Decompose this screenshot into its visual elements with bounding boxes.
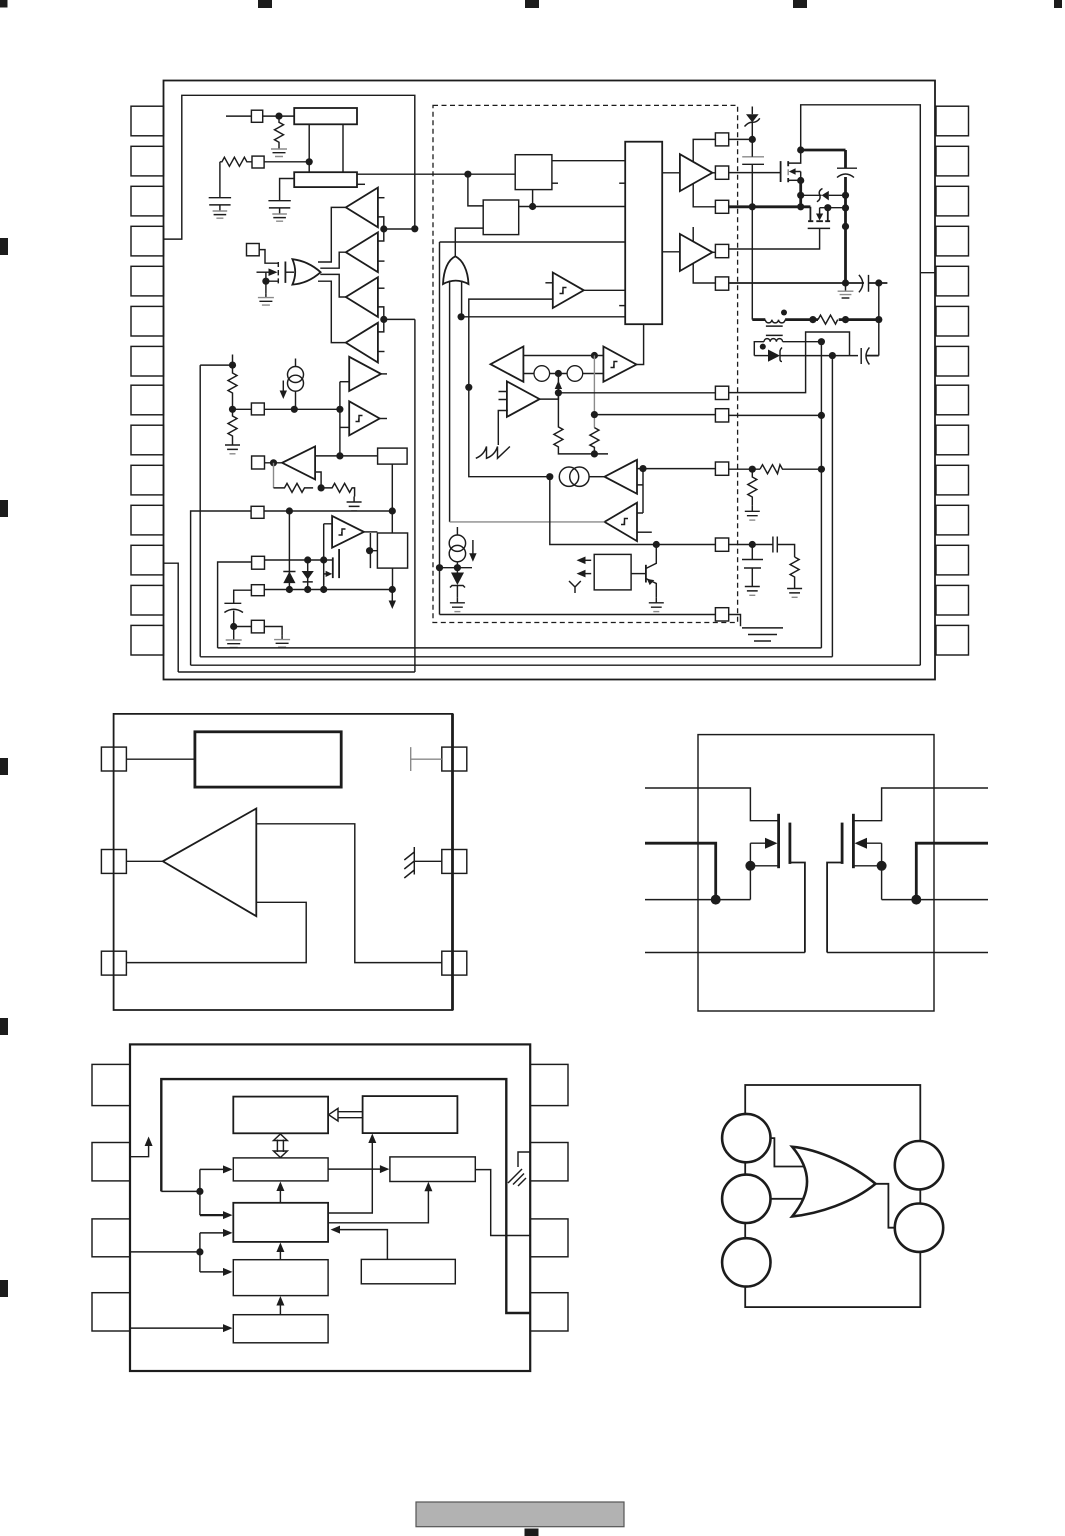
node Q1 source	[262, 278, 269, 285]
pin circle L2	[722, 1175, 770, 1223]
pad square Q2g	[715, 166, 728, 179]
Tr7 input stub	[324, 524, 332, 560]
G2 output to S2	[455, 228, 483, 256]
U1 left pin 10	[131, 465, 164, 495]
U1 right pin 20	[936, 425, 969, 455]
block H (buffer)	[233, 1315, 328, 1343]
T5 out to Q2g	[712, 172, 715, 174]
arrowhead H	[223, 1324, 233, 1332]
wire into P1	[226, 115, 251, 117]
pad square Q8g	[715, 462, 728, 475]
node A2 out	[555, 389, 562, 396]
node comparator input	[336, 406, 343, 413]
U2 pin 4	[442, 951, 467, 975]
ST1 input stub	[545, 282, 552, 284]
wire P6 to latch	[264, 510, 392, 512]
wire E to B riser	[328, 1140, 372, 1213]
Q3 base wire	[631, 573, 646, 575]
pin7 ground hook	[518, 1152, 530, 1167]
pin circle R1	[895, 1141, 943, 1189]
sink arrowhead	[389, 601, 396, 610]
A2 input ticks	[499, 392, 507, 400]
U4 right pin 8	[530, 1064, 568, 1105]
M1 body arrow line	[794, 172, 801, 181]
registration mark bottom	[525, 1529, 539, 1536]
stub T1	[378, 197, 385, 199]
CS1 output wire	[295, 391, 297, 409]
U2 pin 2	[101, 850, 126, 874]
Q2b arrowhead	[326, 571, 333, 577]
IC U2 outline	[114, 714, 453, 1010]
ramp resistor drop 1	[554, 374, 608, 454]
timing capacitor C4	[224, 602, 241, 604]
XOR out mid-lower to T3	[320, 274, 346, 297]
registration mark left 1	[0, 238, 8, 255]
Q1 body arrow	[257, 271, 272, 273]
wire divider to left drop C	[200, 364, 232, 366]
U1 right pin 25	[936, 226, 969, 256]
L2 right wire	[783, 341, 822, 343]
wire L2 to gate	[771, 1198, 809, 1200]
row wire right	[839, 318, 879, 321]
wire P1 to osc block	[263, 115, 295, 117]
Q2b gate top lead	[324, 559, 333, 561]
node pin3	[196, 1248, 203, 1255]
zener Z1	[746, 114, 759, 122]
lead left 2 (thick)	[645, 843, 716, 899]
node: osc input junction	[275, 113, 282, 120]
M2 gate line	[808, 227, 830, 229]
U1 right pin 17	[936, 545, 969, 575]
feedback resistor R6	[321, 483, 355, 496]
U1 right pin 21	[936, 385, 969, 415]
node supply	[196, 1188, 203, 1195]
link M2 to rail	[828, 207, 846, 209]
capacitor C5 curved	[861, 347, 869, 364]
Tr5 output stub	[381, 373, 387, 375]
node L2 net	[818, 338, 825, 345]
T6 top tick	[692, 227, 694, 242]
C5 right lead	[866, 355, 879, 357]
node row B 3	[320, 586, 327, 593]
CS1 down arrow	[282, 381, 284, 394]
U1 left pin 14	[131, 625, 164, 655]
QA body arrow line	[750, 842, 768, 844]
coil L1	[765, 320, 785, 323]
MOSFET Q2b gate bar	[332, 557, 334, 578]
M2 body arrow	[820, 208, 828, 215]
pad square P4	[251, 403, 264, 415]
QB gate bar	[841, 823, 844, 864]
resistor R8	[760, 465, 822, 474]
ground (Q10)	[742, 628, 783, 641]
resistor R3	[228, 365, 237, 409]
wire A10 tap to pin3	[126, 902, 306, 962]
L1 polarity dot	[781, 310, 787, 316]
resistor R7	[818, 315, 838, 324]
node divider mid	[229, 406, 236, 413]
sync block S2	[483, 200, 519, 235]
node Q3 wire b	[797, 203, 804, 210]
ground (R1)	[271, 145, 287, 157]
S2 right wire	[519, 206, 626, 208]
node on crystal bar	[306, 158, 313, 165]
XOR out upper to T1	[318, 207, 346, 262]
XOR out mid-upper to T2	[320, 252, 346, 268]
pin3 riser	[199, 1233, 201, 1272]
node M2 right lead	[824, 204, 831, 211]
M2 arrowhead	[816, 214, 823, 221]
FET QB source riser	[881, 843, 883, 899]
U4 left pin 4	[92, 1293, 130, 1331]
lead right 3	[882, 899, 988, 901]
buffer Tr5	[349, 357, 381, 391]
A3 feedback drop	[273, 463, 275, 488]
block C (control)	[233, 1158, 328, 1181]
arrow E to C	[279, 1188, 281, 1203]
M1 gate bar	[780, 161, 782, 182]
wire D to pin6	[475, 1170, 530, 1236]
Q3 emitter	[646, 579, 656, 598]
node sense/R row	[875, 316, 882, 323]
schmitt buffer Tr6	[349, 401, 380, 435]
node drop1/Q8	[818, 466, 825, 473]
QB source bar link	[853, 865, 881, 867]
block A (RAM)	[233, 1097, 328, 1134]
node rail bottom	[842, 279, 849, 286]
arrow into block C	[200, 1168, 226, 1170]
wire ramp node to Qb pad	[550, 477, 716, 545]
pad square P5	[252, 456, 265, 469]
schmitt ST1	[553, 273, 584, 309]
node osc line / S1	[464, 171, 471, 178]
node CS3/zener	[454, 564, 461, 571]
arrowhead 1	[577, 557, 586, 565]
node right source	[911, 895, 921, 905]
lead left 3	[645, 899, 750, 901]
wire circles to comp3	[589, 476, 604, 478]
PWM left stub 2	[619, 305, 625, 307]
U2 pin 3	[101, 951, 126, 975]
U2 pin 6	[442, 747, 467, 771]
node row B 1	[286, 586, 293, 593]
bottom bus 1	[218, 647, 822, 649]
U1 right pin 18	[936, 505, 969, 535]
zener Z2 (left pointing)	[822, 191, 829, 201]
ramp resistor drop 2	[593, 356, 595, 428]
C2 curved plate	[837, 174, 854, 178]
T6 out to Q4g	[712, 251, 715, 253]
node S1/S2 out	[529, 203, 536, 210]
pad square P3 (gate drive)	[247, 244, 260, 256]
registration mark top-left	[0, 0, 8, 8]
wire A3 to latch B2	[315, 455, 378, 457]
wire P9 to ground hook	[264, 627, 282, 636]
U2 pin 1	[101, 747, 126, 771]
wire Q7g to drop1	[729, 414, 822, 416]
driver buffer T2	[346, 232, 378, 272]
registration mark top 4	[793, 0, 807, 8]
QB body arrow line	[864, 842, 882, 844]
arrowhead C2	[276, 1182, 284, 1192]
thick source drop	[799, 181, 802, 207]
current source CS3	[449, 535, 465, 551]
left loop A (pin12)	[164, 563, 179, 672]
wire osc block output to S1	[357, 173, 515, 175]
M1 source lead	[788, 179, 801, 181]
FET QA source riser	[749, 843, 751, 899]
U1 left pin 11	[131, 505, 164, 535]
registration mark top 3	[525, 0, 539, 8]
ground (P9)	[274, 636, 290, 648]
ground (C7)	[745, 581, 760, 595]
Z2 bar + wire	[801, 189, 846, 202]
comparator C3 (left)	[605, 460, 638, 494]
C1 leads / long rail	[751, 139, 753, 319]
wire Q1 to ground	[265, 281, 267, 293]
wire Q1g to zener	[729, 138, 753, 140]
U2 regulator block	[195, 732, 341, 787]
PWM left stub 1	[619, 182, 625, 184]
ST1 out to PWM	[584, 289, 625, 291]
M1 channel mid (gray)	[787, 169, 789, 175]
wire divider to P4	[233, 408, 252, 410]
wire T3/T4 out to drop bus	[384, 318, 415, 320]
B2 to B3 drop	[391, 464, 393, 533]
MOSFET M1 channel	[787, 161, 789, 182]
lead right 1	[853, 788, 988, 821]
error amp A1 (left)	[491, 347, 524, 382]
IC U1 outline	[164, 81, 936, 680]
logic block B3	[377, 533, 407, 568]
U2 pin 5	[442, 850, 467, 874]
sawtooth waveform glyph	[476, 447, 510, 459]
Q1 arrowhead	[269, 268, 278, 276]
OR gate G10	[792, 1147, 875, 1217]
node row B 4	[389, 586, 396, 593]
wire P3 to gate	[259, 250, 278, 264]
mirror circle M2	[567, 366, 583, 382]
wire R2 to ground	[219, 162, 221, 191]
node T1/T2 out	[380, 225, 387, 232]
wire P7 right	[265, 559, 324, 561]
XOR out lower to T4	[318, 281, 346, 342]
MOSFET M2 (rotated)	[808, 207, 830, 221]
lead right 4	[827, 952, 988, 954]
pin3 wire	[130, 1251, 200, 1253]
link plate to rail	[845, 225, 847, 227]
arrowhead C	[223, 1165, 233, 1173]
link row A to row B	[323, 560, 325, 590]
A1 top wire to SC	[523, 355, 603, 357]
osc block lower-left stub to ground	[280, 179, 295, 194]
wire rail to Qc pad	[440, 614, 716, 616]
node top-rail bus	[411, 225, 418, 232]
wire P7 left loop D	[218, 562, 252, 648]
U1 left pin 3	[131, 186, 164, 216]
wire P2 to crystal node	[264, 161, 309, 163]
pin circle L1	[722, 1114, 770, 1162]
thick drain link	[801, 149, 846, 152]
U1 left pin 4	[131, 226, 164, 256]
registration mark top-right	[1054, 0, 1062, 8]
U4 left pin 1	[92, 1064, 130, 1105]
pad square P8	[251, 585, 264, 596]
arrowhead E2	[223, 1229, 233, 1237]
driver buffer T4	[346, 323, 378, 363]
latch block B2	[378, 448, 408, 464]
C3 net drop	[637, 469, 643, 513]
wire node to pad Q6	[558, 392, 715, 394]
ground (R6)	[347, 497, 362, 511]
pad square P6 (soft start)	[251, 506, 264, 518]
pad square P1 (osc in)	[251, 110, 262, 122]
pad square Q7g	[715, 409, 728, 422]
wire Q10g to ground	[729, 615, 741, 627]
wire C4 to P9	[234, 626, 252, 628]
wire A10 tap to pin4	[256, 824, 442, 963]
registration mark left 5	[0, 1280, 8, 1297]
wire Q3g thick	[729, 205, 811, 208]
B3 bottom lead	[392, 568, 394, 589]
node C3 right	[875, 279, 882, 286]
U1 left pin 5	[131, 266, 164, 296]
node left source	[711, 895, 721, 905]
wire node to S2	[468, 174, 483, 206]
opto interface block	[594, 554, 631, 590]
U1 left pin 8	[131, 385, 164, 415]
U1 right pin 24	[936, 266, 969, 296]
ground (R10)	[787, 583, 802, 597]
node G2 input 2	[458, 313, 465, 320]
inner rail drop	[439, 242, 441, 615]
QA gate lead	[790, 863, 805, 953]
U1 left pin 12	[131, 545, 164, 575]
MOSFET Q1 gate bar	[284, 262, 286, 283]
PWM logic block	[625, 142, 662, 325]
thick rail below C2	[844, 177, 847, 283]
A1 mirror row wire	[523, 373, 603, 375]
node Z2 left	[797, 192, 804, 199]
arrowhead E3	[276, 1243, 284, 1253]
arrowhead D2	[424, 1182, 432, 1192]
pad square Q10g	[715, 608, 728, 621]
wire to top-rail bus	[384, 228, 415, 230]
wire to Tr5	[340, 381, 349, 383]
registration mark left 3	[0, 758, 8, 775]
driver buffer T3	[346, 277, 378, 317]
node row b	[842, 316, 849, 323]
registration mark top 2	[258, 0, 272, 8]
QA channel bar	[777, 814, 780, 868]
SC schmitt glyph	[611, 362, 618, 368]
stub T3	[378, 287, 385, 289]
node T3/T4 out	[380, 316, 387, 323]
T6 lower rail to Q5g	[693, 264, 715, 283]
arrowhead G2	[276, 1296, 284, 1306]
chassis ground glyph	[508, 1169, 526, 1186]
current source CS1 circles	[288, 367, 304, 383]
coil L2	[764, 339, 783, 342]
QA arrowhead	[765, 838, 778, 849]
wire P6 left loop B	[191, 511, 252, 665]
oscillator block top	[294, 108, 357, 124]
wire PWM to T6	[662, 251, 680, 253]
Q2b body arrow	[324, 574, 326, 590]
resistor R1 (osc bias)	[275, 116, 284, 145]
pad square Q1g	[715, 133, 728, 146]
CS1 arrowhead	[280, 391, 287, 400]
thick supply loop	[161, 1079, 530, 1313]
Tr7 out to B3	[364, 531, 378, 533]
T3/T4 output step	[378, 307, 384, 332]
Q1 source wire	[266, 272, 278, 281]
A2 out arrow	[540, 386, 559, 399]
lead left 4	[645, 952, 805, 954]
Tr6 output stub	[380, 418, 387, 420]
ground (osc)	[268, 194, 290, 222]
left loop C drop	[199, 365, 201, 657]
node C3 net	[639, 465, 646, 472]
U1 right pin 28	[936, 106, 969, 136]
wire L1 to gate	[771, 1138, 809, 1166]
M2 gate lead to Q4g	[729, 228, 820, 249]
diode D2 (down)	[303, 560, 313, 590]
C4 side stub	[637, 531, 652, 533]
zener Z4 row	[754, 355, 768, 357]
XOR driver gate body	[292, 259, 320, 284]
node rail/M2	[842, 204, 849, 211]
T5 upper rail to Q1g	[693, 139, 715, 162]
thick arrow into block E	[200, 1214, 224, 1216]
stub osc block lower right	[357, 183, 365, 185]
capacitor C2	[837, 167, 857, 169]
Tr7 schmitt glyph	[339, 529, 346, 535]
node ST1 net / A2	[465, 384, 472, 391]
node P4 net	[291, 406, 298, 413]
riser at node	[199, 1169, 201, 1215]
NC tee at pin6	[411, 747, 442, 771]
node row B 2	[304, 586, 311, 593]
Tr6 schmitt glyph	[356, 416, 363, 422]
QB channel bar	[852, 814, 855, 868]
resistor R4	[228, 409, 237, 439]
U4 right pin 6	[530, 1219, 568, 1257]
U4 left pin 2	[92, 1143, 130, 1181]
arrow into E lower	[200, 1232, 226, 1234]
bottom bus 3	[191, 664, 921, 666]
node C4	[230, 623, 237, 630]
A2 lower input L	[498, 411, 508, 446]
wire Q9g row	[729, 544, 773, 546]
driver triangle T6	[680, 234, 713, 271]
registration mark left 2	[0, 500, 8, 517]
driver triangle T5	[680, 154, 713, 191]
U4 right pin 7	[530, 1143, 568, 1181]
node Z1	[749, 136, 756, 143]
node QB body/source	[877, 861, 887, 871]
node top wire	[591, 352, 598, 359]
wire rail to CS3	[440, 567, 473, 569]
OR package outline	[745, 1085, 920, 1307]
transformer core bars	[766, 326, 783, 335]
Q2b channel bar	[338, 549, 340, 578]
error amp A3	[282, 446, 315, 479]
block G (decoder)	[233, 1260, 328, 1296]
lead right 2 (thick)	[916, 843, 988, 899]
node row a	[809, 316, 816, 323]
pin2 stub arrow	[130, 1143, 149, 1157]
